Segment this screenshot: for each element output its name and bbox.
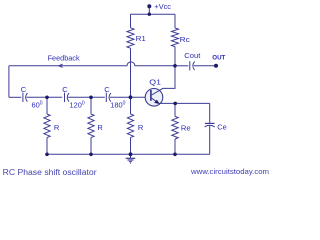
svg-text:Re: Re	[181, 123, 191, 132]
svg-text:C: C	[104, 85, 110, 94]
svg-text:C: C	[62, 85, 68, 94]
svg-text:R: R	[97, 123, 103, 132]
svg-text:OUT: OUT	[212, 55, 225, 62]
svg-text:Rc: Rc	[180, 35, 190, 44]
svg-text:www.circuitstoday.com: www.circuitstoday.com	[190, 167, 269, 176]
svg-text:C: C	[21, 85, 27, 94]
svg-text:Feedback: Feedback	[48, 54, 80, 63]
svg-text:+Vcc: +Vcc	[154, 2, 171, 11]
svg-text:R: R	[138, 123, 144, 132]
svg-text:Q1: Q1	[149, 77, 161, 86]
svg-text:R1: R1	[136, 34, 146, 43]
svg-text:Cout: Cout	[184, 51, 201, 60]
svg-text:RC Phase shift oscillator: RC Phase shift oscillator	[3, 168, 97, 177]
svg-text:Ce: Ce	[217, 123, 227, 132]
svg-text:R: R	[54, 123, 60, 132]
